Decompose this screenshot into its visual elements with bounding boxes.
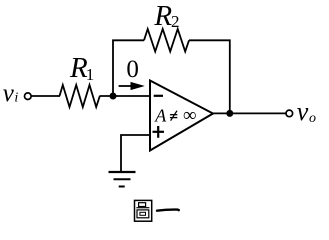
svg-text:o: o [309, 111, 316, 126]
node A junction dot (inverting input node) [110, 93, 117, 100]
svg-text:A: A [154, 106, 167, 126]
resistor R1 (zigzag) [60, 85, 100, 107]
op-amp U1 triangle [150, 81, 213, 151]
wire: op-amp output to vo terminal [213, 112, 286, 114]
op-amp inverting input minus sign [154, 95, 163, 97]
input terminal (vi) [25, 93, 32, 100]
op-amp non-inverting input plus sign [153, 126, 165, 138]
wire: feedback left vertical [113, 40, 144, 96]
wire: R2 to right vertical [189, 40, 230, 113]
ground [109, 172, 136, 187]
caption: character 一 (one) [157, 210, 179, 211]
output terminal (vo) [286, 110, 293, 117]
resistor R2 (zigzag) [144, 29, 189, 52]
svg-text:R: R [153, 0, 172, 32]
svg-text:2: 2 [171, 12, 180, 31]
svg-text:i: i [14, 90, 18, 105]
wire: non-inverting input to ground [121, 135, 150, 171]
caption: character 圖 (figure) [135, 200, 152, 221]
svg-text:1: 1 [86, 65, 95, 84]
svg-text:∞: ∞ [183, 105, 197, 126]
svg-text:0: 0 [126, 56, 138, 83]
svg-text:v: v [297, 97, 309, 126]
wire: R1 to op-amp inverting input [100, 95, 151, 97]
wire: input terminal to R1 [31, 95, 60, 97]
current arrow (0 current into op-amp) [119, 85, 133, 87]
output junction dot [226, 110, 233, 117]
svg-text:v: v [3, 80, 15, 107]
